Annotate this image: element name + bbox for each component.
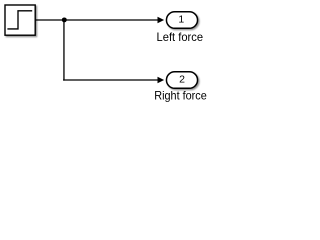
step waveform icon: [7, 11, 32, 29]
outport block 1: [166, 12, 197, 29]
wire: step output to outport 1 arrow: [36, 19, 158, 21]
arrowhead 2: [158, 77, 165, 83]
junction dot: [62, 17, 67, 22]
svg-text:Left force: Left force: [157, 30, 204, 44]
svg-text:1: 1: [178, 14, 184, 26]
arrowhead 1: [158, 17, 165, 23]
outport block 2: [166, 72, 197, 89]
svg-text:Right force: Right force: [154, 89, 207, 103]
step block U:Step: [5, 5, 35, 35]
svg-text:2: 2: [179, 74, 185, 86]
wire: bottom branch to outport 2 arrow: [63, 79, 158, 81]
wire: branch down from junction: [63, 19, 65, 80]
